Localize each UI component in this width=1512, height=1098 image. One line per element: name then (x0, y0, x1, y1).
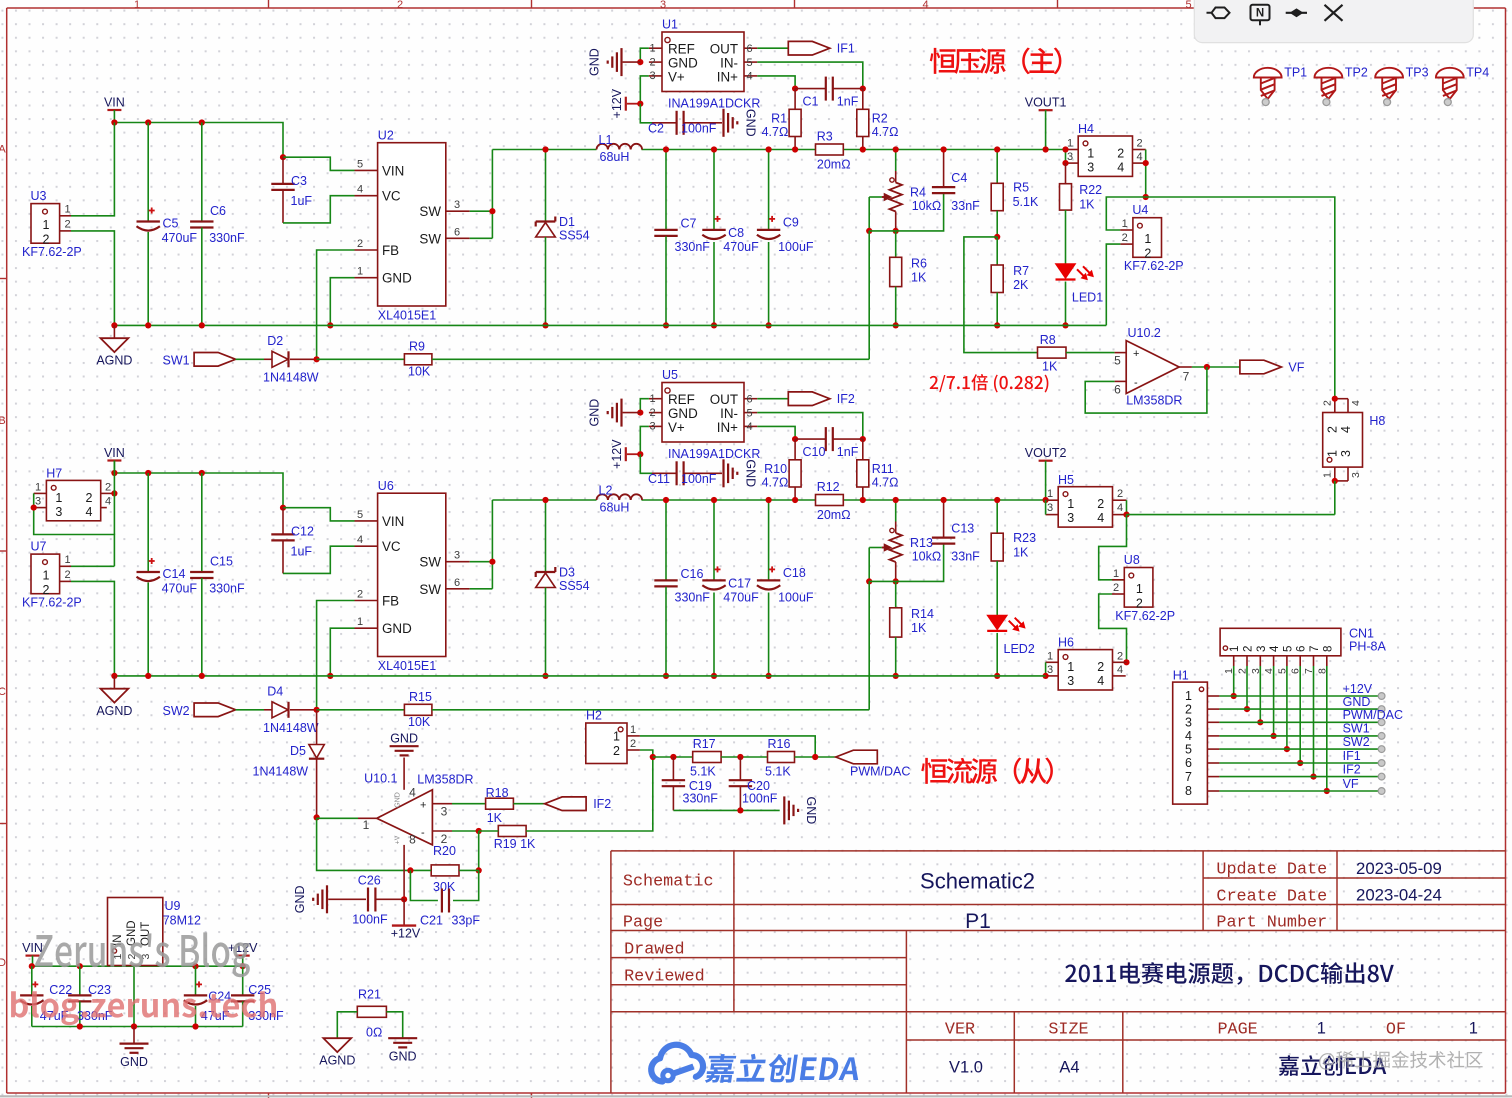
svg-text:KF7.62-2P: KF7.62-2P (1115, 609, 1175, 623)
svg-text:R1: R1 (771, 112, 787, 126)
ground symbol left of C26 (326, 885, 328, 913)
svg-text:Schematic: Schematic (623, 873, 714, 892)
svg-text:100nF: 100nF (742, 792, 778, 806)
ground symbol right of C20 (783, 796, 785, 824)
svg-text:1: 1 (1113, 568, 1119, 580)
svg-text:3: 3 (1185, 716, 1192, 730)
wire U4 pin2 to ground rail (1106, 244, 1120, 325)
svg-text:R7: R7 (1013, 264, 1029, 278)
ground symbol above U10.1 pin4 (403, 758, 405, 790)
svg-text:1: 1 (55, 491, 62, 505)
svg-text:IF1: IF1 (1343, 749, 1361, 763)
svg-text:GND: GND (389, 1050, 417, 1064)
svg-text:R11: R11 (872, 462, 894, 476)
svg-text:33nF: 33nF (951, 550, 980, 564)
svg-text:3: 3 (649, 70, 655, 82)
svg-text:1: 1 (43, 569, 50, 583)
ground symbol at U5 pin2 (623, 412, 641, 414)
wire C12 to U6 VC pin (283, 546, 355, 573)
svg-text:IN-: IN- (720, 56, 738, 71)
title text 2011 DCDC (1065, 965, 1076, 982)
capacitor C23 330nF (79, 966, 81, 995)
svg-text:1: 1 (1322, 472, 1334, 478)
svg-text:10kΩ: 10kΩ (912, 199, 942, 213)
svg-text:1K: 1K (1042, 360, 1058, 374)
svg-text:D2: D2 (267, 334, 283, 348)
wire D4 to R15 (317, 709, 405, 711)
wire divider tap to R8 (964, 237, 1038, 353)
svg-text:1nF: 1nF (837, 95, 859, 109)
svg-text:2: 2 (1243, 646, 1255, 652)
svg-text:1: 1 (1229, 646, 1241, 652)
connector H7 body (46, 480, 100, 520)
svg-text:1K: 1K (1013, 546, 1029, 560)
connector H2 body (586, 723, 627, 764)
svg-text:4: 4 (1269, 645, 1281, 652)
svg-text:1: 1 (65, 554, 71, 566)
resistor R9 10K (404, 354, 432, 365)
svg-text:Update Date: Update Date (1216, 861, 1327, 880)
test point TP1 (1254, 68, 1282, 78)
svg-text:3: 3 (1339, 450, 1353, 457)
svg-text:4: 4 (1097, 674, 1104, 688)
svg-text:4: 4 (1117, 161, 1124, 175)
toolbar icon net-port (1207, 8, 1230, 19)
connector U8 KF7.62-2P body (1124, 568, 1153, 608)
svg-text:7: 7 (1185, 770, 1192, 784)
svg-text:U4: U4 (1132, 203, 1148, 217)
net flag VF (1240, 360, 1282, 374)
capacitor C20 100nF (739, 757, 741, 780)
svg-text:10K: 10K (408, 715, 431, 729)
svg-text:2: 2 (1113, 582, 1119, 594)
svg-text:33pF: 33pF (452, 914, 481, 928)
wire R17 to R16 (721, 756, 767, 758)
wire IN+ to sense left node (757, 76, 795, 89)
resistor R2 4.7Ω (862, 89, 864, 110)
capacitor C7 330nF (665, 150, 667, 230)
svg-text:1: 1 (357, 266, 363, 278)
resistor R1 4.7Ω (794, 89, 796, 110)
capacitor C8 470uF (713, 150, 715, 230)
capacitor C14 470uF (147, 473, 149, 572)
capacitor C10 1nF (795, 438, 826, 440)
wire ground rail (top) (114, 324, 1106, 326)
svg-text:4: 4 (1117, 502, 1123, 514)
wire output rail (top) (492, 149, 596, 151)
svg-text:2: 2 (1326, 426, 1340, 433)
wire H4 left pins (1065, 150, 1067, 164)
svg-text:330nF: 330nF (683, 792, 719, 806)
svg-text:TP3: TP3 (1406, 66, 1429, 80)
svg-text:GND: GND (293, 885, 307, 913)
svg-text:6: 6 (1296, 646, 1308, 652)
wire U2 SW node (470, 210, 493, 212)
resistor R19 1K (498, 826, 526, 837)
svg-text:TP2: TP2 (1345, 66, 1368, 80)
svg-text:VER: VER (945, 1021, 975, 1040)
svg-text:TP1: TP1 (1284, 66, 1307, 80)
svg-text:1: 1 (1185, 689, 1192, 703)
svg-text:20mΩ: 20mΩ (817, 508, 851, 522)
svg-text:OUT: OUT (710, 42, 738, 57)
op-amp U10.1 LM358DR (377, 790, 433, 845)
svg-text:1: 1 (1067, 660, 1074, 674)
wire VIN rail (mid) (114, 473, 283, 508)
svg-text:4: 4 (1136, 151, 1142, 163)
watermark Zeruns Blog (35, 932, 250, 977)
test point TP4 (1436, 68, 1464, 78)
wire IN+ to sense left node (757, 426, 795, 439)
svg-text:C5: C5 (163, 217, 179, 231)
wire U10.2 feedback (1085, 367, 1207, 413)
wire U6 SW node (470, 561, 493, 563)
logo JLC cloud (651, 1045, 703, 1082)
svg-text:TP4: TP4 (1466, 66, 1489, 80)
svg-text:+: + (420, 800, 426, 812)
svg-text:U9: U9 (165, 899, 181, 913)
resistor R22 1K (1065, 163, 1067, 184)
svg-text:4: 4 (922, 0, 928, 11)
svg-text:OUT: OUT (710, 392, 738, 407)
wire R13 wiper (869, 547, 882, 549)
node R13 bottom (866, 578, 872, 584)
svg-text:A4: A4 (1059, 1059, 1079, 1077)
svg-text:GND: GND (743, 459, 757, 487)
logo JLC text 嘉立创EDA (705, 1054, 862, 1083)
capacitor C15 330nF (201, 473, 203, 572)
svg-text:100nF: 100nF (681, 122, 717, 136)
ic U2 XL4015E1 body (378, 143, 446, 306)
svg-text:SW2: SW2 (163, 704, 190, 718)
svg-text:10K: 10K (408, 365, 431, 379)
resistor R12 20mΩ (816, 495, 844, 506)
connector H8 pins (1334, 399, 1336, 413)
node D2 R9 FB (314, 356, 320, 362)
ground symbol (R21) (388, 1037, 417, 1039)
svg-text:LED2: LED2 (1004, 642, 1035, 656)
svg-text:VIN: VIN (22, 941, 43, 955)
capacitor C11 100nF (652, 472, 677, 474)
connector U4 KF7.62-2P body (1133, 218, 1162, 258)
svg-text:Reviewed: Reviewed (624, 968, 705, 987)
svg-text:R17: R17 (693, 737, 716, 751)
svg-text:GND: GND (390, 732, 418, 746)
capacitor C1 1nF (795, 88, 826, 90)
svg-text:4.7Ω: 4.7Ω (762, 475, 789, 489)
svg-text:VIN: VIN (382, 514, 404, 529)
capacitor C17 470uF (713, 500, 715, 580)
svg-text:100uF: 100uF (778, 240, 814, 254)
capacitor C21 33pF (410, 870, 438, 900)
wire VOUT node to H8 (1146, 197, 1335, 399)
svg-text:AGND: AGND (96, 354, 132, 368)
toolbar panel (1194, 0, 1473, 43)
wire U5 pin1-pin2 junction (640, 399, 649, 413)
wire U9 GND pin down (133, 966, 135, 1027)
wire R16 to PWM flag (795, 756, 836, 758)
svg-text:C7: C7 (681, 217, 697, 231)
wire IN- to sense right node (757, 413, 863, 440)
wire U1 pin1-pin2 junction (640, 48, 649, 62)
svg-text:1N4148W: 1N4148W (263, 371, 319, 385)
wire U2 FB (317, 250, 355, 359)
svg-text:2: 2 (1322, 400, 1334, 406)
svg-text:VC: VC (382, 189, 401, 204)
svg-text:330nF: 330nF (209, 582, 245, 596)
resistor R3 20mΩ (816, 144, 844, 155)
svg-text:U10.2: U10.2 (1128, 326, 1161, 340)
svg-text:5.1K: 5.1K (765, 765, 791, 779)
svg-text:5.1K: 5.1K (690, 765, 716, 779)
wire H5 pin4 to U8 pin1 (1099, 515, 1127, 580)
svg-text:C17: C17 (728, 577, 751, 591)
wire output rail (mid) (492, 499, 596, 501)
resistor R16 5.1K (768, 752, 795, 763)
svg-text:3: 3 (649, 421, 655, 433)
wire supply top rail (32, 965, 243, 967)
potentiometer R4 10kΩ (895, 150, 897, 172)
ground AGND (top) (113, 325, 115, 338)
svg-text:C13: C13 (951, 522, 974, 536)
wire H5 right pins (1126, 500, 1128, 514)
svg-text:C8: C8 (728, 226, 744, 240)
svg-text:2: 2 (649, 57, 655, 69)
resistor R6 1K (895, 231, 897, 257)
connector H8 body (1323, 413, 1363, 468)
svg-text:B: B (0, 415, 6, 427)
potentiometer R13 10kΩ (895, 500, 897, 522)
svg-text:R4: R4 (910, 186, 926, 200)
svg-text:GND: GND (588, 48, 602, 76)
wire H2 pin2 to R17 (640, 750, 653, 757)
svg-text:2: 2 (649, 407, 655, 419)
svg-text:AGND: AGND (319, 1054, 355, 1068)
svg-text:5: 5 (357, 158, 363, 170)
svg-text:R2: R2 (872, 112, 888, 126)
svg-text:4.7Ω: 4.7Ω (872, 125, 899, 139)
title block company 嘉立创EDA (1279, 1055, 1299, 1075)
sheet border frame (7, 7, 1506, 9)
svg-text:8: 8 (1322, 646, 1334, 652)
resistor R20 30K (478, 831, 480, 870)
test point TP2 (1315, 68, 1343, 78)
svg-text:2: 2 (1117, 488, 1123, 500)
resistor R7 2K (996, 237, 998, 265)
svg-text:6: 6 (454, 577, 460, 589)
svg-text:2: 2 (1117, 650, 1123, 662)
svg-text:33nF: 33nF (951, 199, 980, 213)
inductor L2 68uH (597, 494, 643, 500)
svg-text:3: 3 (454, 550, 460, 562)
svg-text:8: 8 (1185, 784, 1192, 798)
svg-text:C4: C4 (951, 171, 967, 185)
svg-text:GND: GND (668, 406, 698, 421)
wire U6 GND (330, 628, 354, 676)
svg-text:1: 1 (649, 393, 655, 405)
wire C19 C20 ground line (673, 809, 779, 811)
ruler ticks bottom (268, 1093, 270, 1098)
svg-text:C6: C6 (210, 204, 226, 218)
svg-text:1nF: 1nF (837, 445, 859, 459)
svg-text:C10: C10 (803, 445, 826, 459)
capacitor C3 1uF (282, 157, 284, 184)
svg-text:1: 1 (357, 616, 363, 628)
svg-text:1K: 1K (911, 271, 927, 285)
svg-text:IN+: IN+ (717, 70, 738, 85)
capacitor C25 330nF (242, 966, 244, 995)
svg-text:C9: C9 (783, 216, 799, 230)
connector CN1 PH-8A body (1220, 628, 1341, 656)
svg-text:L1: L1 (599, 133, 613, 147)
svg-text:D3: D3 (559, 566, 575, 580)
svg-text:6: 6 (746, 43, 752, 55)
wire R13 node to R15 line (868, 581, 870, 709)
svg-text:U1: U1 (662, 18, 678, 32)
wire VIN rail (top) (114, 123, 283, 158)
svg-text:10kΩ: 10kΩ (912, 550, 942, 564)
svg-text:C16: C16 (681, 567, 704, 581)
svg-text:330nF: 330nF (675, 591, 711, 605)
wire VOUT node to U4 pin1 (1106, 197, 1145, 230)
svg-text:1: 1 (1067, 497, 1074, 511)
svg-text:C23: C23 (88, 983, 111, 997)
svg-text:5: 5 (1282, 646, 1294, 652)
svg-text:2: 2 (630, 738, 636, 750)
wire to U6 VIN pin (283, 508, 355, 521)
svg-text:470uF: 470uF (723, 591, 759, 605)
svg-text:100uF: 100uF (778, 591, 814, 605)
svg-text:CN1: CN1 (1349, 627, 1374, 641)
svg-text:R12: R12 (817, 480, 840, 494)
capacitor C6 330nF (201, 123, 203, 222)
svg-text:LM358DR: LM358DR (417, 773, 473, 787)
svg-text:2: 2 (357, 238, 363, 250)
svg-text:VOUT1: VOUT1 (1025, 96, 1067, 110)
svg-text:2023-04-24: 2023-04-24 (1356, 886, 1442, 905)
connector CN1 pins (1233, 656, 1235, 666)
svg-text:2: 2 (1136, 137, 1142, 149)
node R4 bottom (866, 228, 872, 234)
capacitor C19 330nF (672, 757, 674, 780)
svg-text:3: 3 (1087, 161, 1094, 175)
svg-text:5.1K: 5.1K (1013, 195, 1039, 209)
svg-text:Page: Page (623, 914, 663, 933)
canvas bottom edge line (0, 1095, 1512, 1097)
svg-text:-: - (1134, 377, 1138, 389)
wire R17 input node (653, 756, 693, 758)
svg-text:2: 2 (65, 219, 71, 231)
svg-text:1N4148W: 1N4148W (263, 721, 319, 735)
svg-text:SS54: SS54 (559, 229, 590, 243)
svg-text:GND: GND (395, 792, 402, 808)
svg-text:AGND: AGND (96, 704, 132, 718)
power +12V at U1 V+ (625, 97, 627, 111)
svg-text:VF: VF (1343, 777, 1359, 791)
wire U6 FB (317, 601, 355, 710)
wire R4 node to R9 line (868, 231, 870, 359)
svg-text:D4: D4 (267, 685, 283, 699)
inductor L1 68uH (597, 144, 643, 150)
svg-text:68uH: 68uH (600, 501, 630, 515)
svg-text:VIN: VIN (104, 446, 125, 460)
svg-text:SIZE: SIZE (1048, 1021, 1088, 1040)
svg-text:0Ω: 0Ω (366, 1026, 382, 1040)
ic U6 XL4015E1 body (378, 493, 446, 656)
svg-text:C18: C18 (783, 566, 806, 580)
svg-text:3: 3 (441, 805, 448, 819)
wire U7 pin1 (71, 565, 114, 567)
svg-text:-: - (421, 827, 425, 839)
svg-text:GND: GND (668, 56, 698, 71)
diode D3 SS54 (545, 500, 547, 572)
svg-text:1: 1 (363, 818, 370, 832)
wire R9 to R4 wiper node (432, 358, 869, 360)
svg-text:4.7Ω: 4.7Ω (872, 475, 899, 489)
svg-text:H1: H1 (1173, 669, 1189, 683)
svg-text:2: 2 (1117, 147, 1124, 161)
svg-text:+12V: +12V (610, 88, 624, 118)
svg-text:U5: U5 (662, 368, 678, 382)
watermark blog.zeruns.tech (11, 991, 276, 1025)
svg-text:REF: REF (668, 42, 695, 57)
svg-text:SW: SW (419, 582, 441, 597)
svg-text:D5: D5 (290, 744, 306, 758)
svg-text:8: 8 (409, 833, 416, 847)
svg-text:XL4015E1: XL4015E1 (378, 309, 436, 323)
svg-text:H8: H8 (1369, 414, 1385, 428)
svg-text:V1.0: V1.0 (949, 1059, 983, 1077)
svg-text:PWM/DAC: PWM/DAC (1343, 708, 1403, 722)
wire R4 wiper (869, 196, 882, 198)
resistor R17 5.1K (693, 752, 721, 763)
svg-text:3: 3 (1067, 511, 1074, 525)
svg-text:KF7.62-2P: KF7.62-2P (1124, 259, 1184, 273)
diode D1 SS54 (545, 150, 547, 222)
connector H4 body (1078, 136, 1132, 176)
svg-text:GND: GND (588, 399, 602, 427)
wire IN- to sense right node (757, 62, 863, 89)
svg-text:470uF: 470uF (162, 231, 198, 245)
svg-text:R19 1K: R19 1K (494, 837, 536, 851)
svg-text:1N4148W: 1N4148W (253, 765, 309, 779)
wire R21 to GND (386, 1012, 402, 1038)
svg-text:H5: H5 (1058, 473, 1074, 487)
svg-text:Create Date: Create Date (1216, 888, 1327, 907)
svg-text:3: 3 (454, 199, 460, 211)
wire H7 left pins to U7 (34, 493, 115, 566)
svg-text:4: 4 (1350, 400, 1362, 406)
resistor R15 10K (404, 704, 432, 715)
svg-text:470uF: 470uF (162, 582, 198, 596)
svg-text:2K: 2K (1013, 278, 1029, 292)
wire U7 pin2 to AGND (mid) (71, 581, 114, 676)
svg-text:+12V: +12V (610, 439, 624, 469)
svg-text:1: 1 (1047, 650, 1053, 662)
label 2/7.1倍 (0.282) (930, 376, 938, 389)
svg-text:1: 1 (1087, 147, 1094, 161)
wire supply ground rail (32, 1026, 243, 1028)
svg-text:6: 6 (1185, 756, 1192, 770)
capacitor C16 330nF (665, 500, 667, 580)
svg-text:SS54: SS54 (559, 579, 590, 593)
svg-text:U6: U6 (378, 479, 394, 493)
svg-text:C3: C3 (291, 174, 307, 188)
ground AGND (R21) (323, 1038, 351, 1052)
svg-text:SW1: SW1 (1343, 722, 1370, 736)
svg-text:1uF: 1uF (291, 545, 313, 559)
svg-text:R6: R6 (911, 257, 927, 271)
